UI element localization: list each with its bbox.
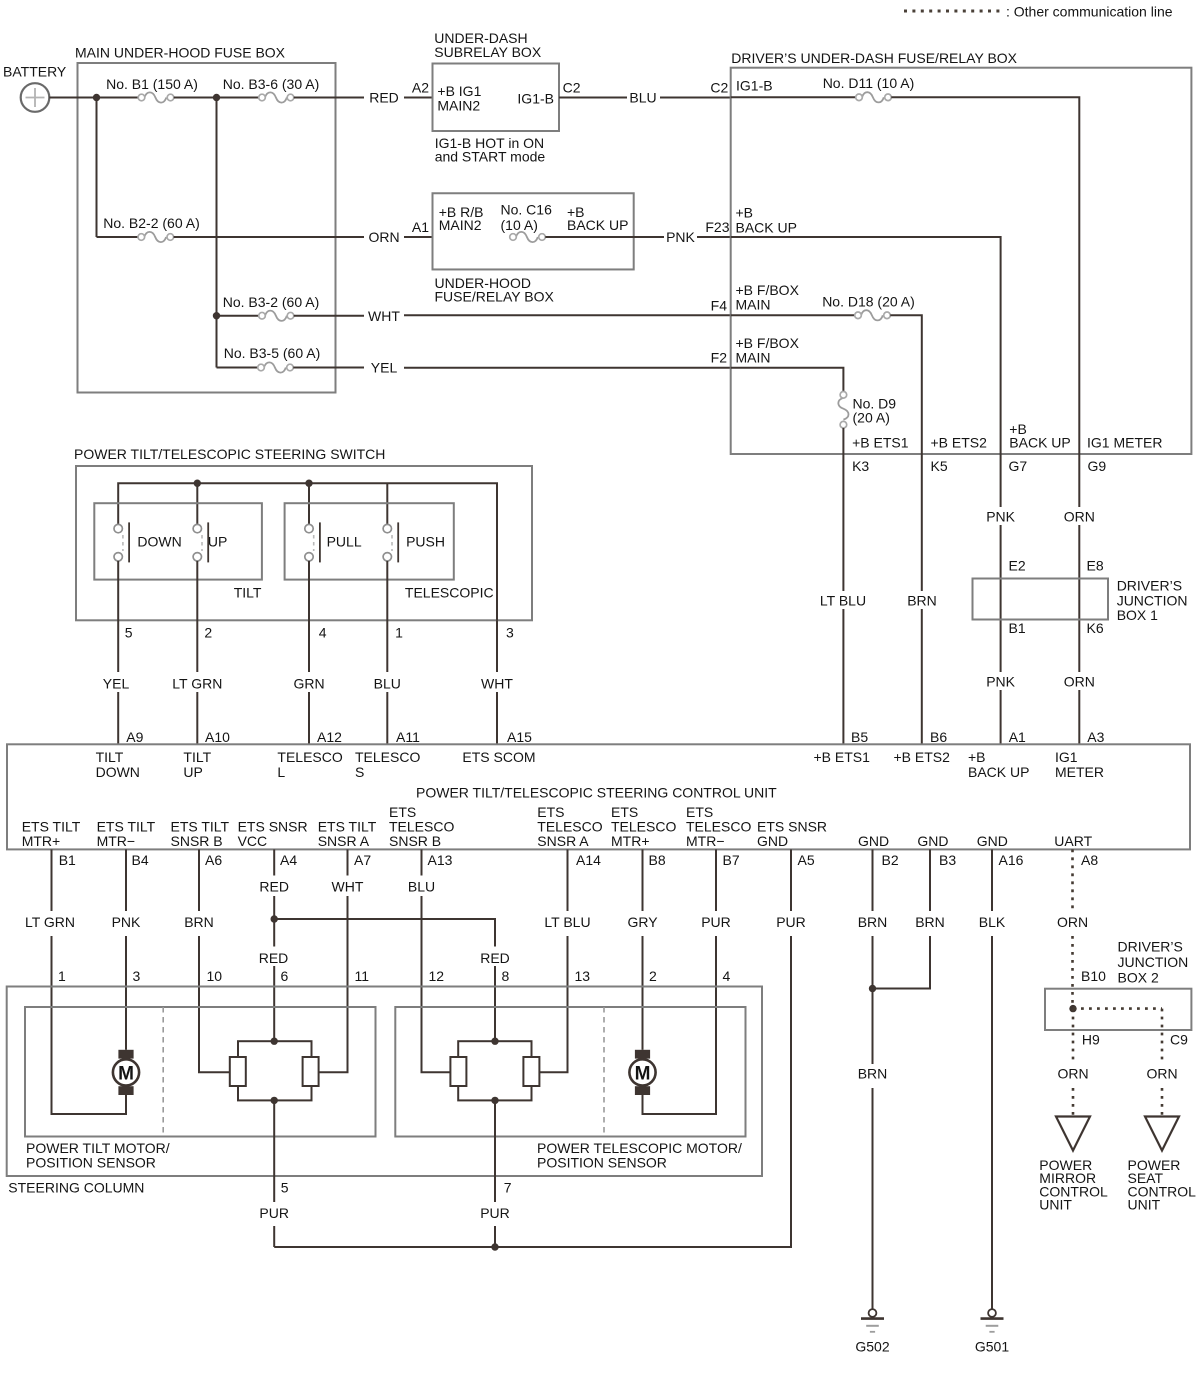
svg-text:DRIVER’S: DRIVER’S [1117, 578, 1182, 594]
dotted wire junction box 2 branch [1073, 1007, 1162, 1010]
svg-text:TELESCO: TELESCO [355, 749, 420, 765]
wire switch pin 1 to A11 [386, 561, 388, 672]
svg-text:GRN: GRN [293, 676, 324, 692]
svg-text:UART: UART [1054, 833, 1092, 849]
svg-text:IG1 METER: IG1 METER [1087, 435, 1162, 451]
svg-text:2: 2 [649, 968, 657, 984]
svg-text:A15: A15 [507, 729, 532, 745]
wire fuse D18 to K5 column [890, 315, 922, 591]
contact UP [193, 522, 208, 562]
wire fuse D9 to K3 [842, 428, 844, 591]
node telescopic sensor top [491, 1038, 498, 1045]
svg-text:PULL: PULL [327, 534, 362, 550]
svg-text:BOX 2: BOX 2 [1118, 970, 1159, 986]
wire battery to fuse B1 [49, 97, 138, 99]
wire fuse B2-2 to ORN label [174, 236, 364, 238]
svg-text:C2: C2 [710, 80, 728, 96]
svg-text:MTR+: MTR+ [611, 833, 650, 849]
fuse No. C16 [516, 232, 538, 242]
under-hood fuse/relay box [433, 193, 634, 269]
svg-text:B6: B6 [930, 729, 947, 745]
wire switch pin 5 to A9 [117, 561, 119, 672]
tilt motor M [113, 1050, 139, 1095]
wire B3 joins B2 [929, 849, 931, 911]
svg-text:G502: G502 [855, 1339, 889, 1355]
svg-text:BRN: BRN [858, 914, 888, 930]
node telescopic sensor bottom [491, 1097, 498, 1104]
svg-text:MTR+: MTR+ [22, 833, 61, 849]
svg-text:YEL: YEL [371, 360, 398, 376]
wire B1 to motor pin 1 [51, 849, 53, 911]
contact PULL [305, 522, 320, 562]
svg-text:: Other communication line: : Other communication line [1006, 4, 1173, 20]
svg-text:GRY: GRY [627, 914, 658, 930]
svg-text:BACK UP: BACK UP [567, 217, 628, 233]
node tilt sensor top [271, 1038, 278, 1045]
telescopic sensor right element [523, 1057, 539, 1086]
wire RED label to subrelay box [404, 97, 433, 99]
wire tilt sensor wiper down pin 5 [273, 1100, 275, 1202]
svg-text:8: 8 [502, 968, 510, 984]
under-dash subrelay box [433, 64, 560, 132]
ground G502 [855, 1295, 889, 1355]
svg-text:No. C16: No. C16 [501, 202, 553, 218]
svg-text:SNSR B: SNSR B [171, 833, 223, 849]
legend: other communication line sample [904, 10, 1001, 13]
svg-text:PNK: PNK [986, 674, 1015, 690]
svg-text:VCC: VCC [238, 833, 268, 849]
svg-text:GND: GND [858, 833, 889, 849]
svg-text:6: 6 [281, 968, 289, 984]
svg-text:METER: METER [1055, 764, 1104, 780]
wire C16 to PNK label [545, 236, 664, 238]
svg-text:+B ETS1: +B ETS1 [852, 435, 909, 451]
battery B+ terminal [21, 83, 50, 112]
svg-text:BLK: BLK [979, 914, 1006, 930]
svg-text:MAIN2: MAIN2 [437, 97, 480, 113]
svg-text:LT GRN: LT GRN [172, 676, 222, 692]
svg-text:BACK UP: BACK UP [736, 220, 797, 236]
svg-text:RED: RED [480, 950, 510, 966]
svg-text:K3: K3 [852, 458, 869, 474]
svg-text:A7: A7 [354, 852, 371, 868]
wire B3-2 row start [217, 315, 259, 317]
svg-text:UNIT: UNIT [1039, 1197, 1072, 1213]
svg-text:B1: B1 [59, 852, 76, 868]
svg-text:MAIN2: MAIN2 [439, 217, 482, 233]
fuse No. B3-5 (60 A) [264, 362, 286, 372]
wire switch pin 2 to A10 [196, 561, 198, 672]
svg-text:B5: B5 [851, 729, 868, 745]
wire branch down to B2-2 row [96, 98, 98, 238]
svg-text:LT GRN: LT GRN [25, 914, 75, 930]
RED wire branch to pin 8 [274, 919, 495, 947]
wire A13 to sensor pin 12 [421, 849, 423, 875]
svg-text:PNK: PNK [112, 914, 141, 930]
wire C2 to fuse D11 [731, 96, 856, 98]
wire branch down to B3-2 and B3-5 rows [216, 98, 218, 368]
svg-text:7: 7 [504, 1180, 512, 1196]
wire PNK label to drivers box F23 [697, 236, 731, 238]
svg-text:IG1: IG1 [1055, 749, 1078, 765]
svg-text:K6: K6 [1087, 620, 1104, 636]
drivers junction box 1 [973, 579, 1109, 620]
svg-text:No. D11 (10 A): No. D11 (10 A) [823, 75, 915, 91]
svg-text:ORN: ORN [1064, 509, 1095, 525]
wire PULL top contact to bus [308, 483, 310, 524]
svg-text:ORN: ORN [1057, 1066, 1088, 1082]
wire B3-5 row start [217, 367, 258, 369]
svg-text:IG1-B: IG1-B [736, 78, 773, 94]
wire YEL label to drivers box F2 [404, 367, 731, 369]
svg-text:TILT: TILT [183, 749, 211, 765]
tilt motor separator dashed [162, 1007, 164, 1137]
svg-text:MAIN: MAIN [736, 296, 771, 312]
svg-text:UNIT: UNIT [1128, 1197, 1161, 1213]
svg-text:RED: RED [259, 879, 289, 895]
svg-text:B10: B10 [1081, 968, 1106, 984]
svg-text:12: 12 [429, 968, 445, 984]
svg-text:A9: A9 [126, 729, 143, 745]
wire A4 to sensor pin 6 [273, 849, 275, 875]
svg-text:B2: B2 [882, 852, 899, 868]
svg-text:SNSR B: SNSR B [389, 833, 441, 849]
wire F23 to G7 column [731, 237, 1001, 507]
node tilt sensor bottom [271, 1097, 278, 1104]
wire K5 to B6 lower [921, 609, 923, 744]
svg-text:1: 1 [395, 625, 403, 641]
telescopic switch box [285, 503, 454, 579]
svg-text:STEERING COLUMN: STEERING COLUMN [8, 1180, 144, 1196]
svg-text:ORN: ORN [1057, 914, 1088, 930]
wire switch pin 4 to A12 [308, 561, 310, 672]
svg-text:M: M [635, 1064, 651, 1085]
svg-text:BRN: BRN [915, 914, 945, 930]
wire A14 to sensor pin 13 [567, 849, 569, 911]
node RED split [271, 915, 278, 922]
wire G7 to A1 via junction box [1000, 525, 1002, 672]
svg-text:PUSH: PUSH [406, 534, 445, 550]
svg-text:A1: A1 [412, 219, 429, 235]
dotted wire H9 to power mirror [1072, 1009, 1075, 1064]
svg-text:A10: A10 [205, 729, 230, 745]
svg-text:PNK: PNK [666, 229, 695, 245]
svg-text:DOWN: DOWN [137, 534, 181, 550]
svg-text:BRN: BRN [184, 914, 214, 930]
svg-text:MTR−: MTR− [97, 833, 136, 849]
wire PUSH top contact to bus [386, 483, 388, 524]
power tilt motor/position sensor box [25, 1007, 376, 1137]
wire A7 to sensor pin 11 [347, 849, 349, 875]
svg-text:+B ETS2: +B ETS2 [931, 435, 988, 451]
svg-text:GND: GND [757, 833, 788, 849]
svg-text:No. B3-5 (60 A): No. B3-5 (60 A) [224, 345, 321, 361]
svg-text:13: 13 [575, 968, 591, 984]
svg-text:GND: GND [977, 833, 1008, 849]
svg-text:C2: C2 [563, 80, 581, 96]
drivers junction box 2 [1045, 989, 1191, 1030]
wire BLU label to drivers box [660, 97, 731, 99]
svg-text:ORN: ORN [1064, 674, 1095, 690]
svg-text:ORN: ORN [1146, 1066, 1177, 1082]
svg-text:UP: UP [183, 764, 202, 780]
svg-text:11: 11 [355, 968, 370, 984]
fuse No. B2-2 (60 A) [144, 232, 166, 242]
ground G501 [975, 1295, 1009, 1355]
wire UP top contact to bus [196, 483, 198, 524]
drivers under-dash fuse/relay box [731, 68, 1192, 454]
svg-text:1: 1 [58, 968, 66, 984]
svg-text:(10 A): (10 A) [501, 217, 538, 233]
svg-text:SNSR A: SNSR A [318, 833, 370, 849]
svg-text:5: 5 [281, 1180, 289, 1196]
svg-text:POWER TILT/TELESCOPIC STEERING: POWER TILT/TELESCOPIC STEERING SWITCH [74, 446, 385, 462]
svg-text:POSITION SENSOR: POSITION SENSOR [537, 1155, 667, 1171]
svg-text:POSITION SENSOR: POSITION SENSOR [26, 1155, 156, 1171]
switch bus wire [118, 483, 497, 620]
svg-text:H9: H9 [1082, 1032, 1100, 1048]
svg-text:K5: K5 [931, 458, 948, 474]
svg-text:3: 3 [506, 625, 514, 641]
svg-text:G7: G7 [1009, 458, 1028, 474]
wire F2 to fuse D9 [731, 368, 844, 392]
svg-text:BACK UP: BACK UP [1009, 435, 1070, 451]
telescopic sensor left element [450, 1057, 466, 1086]
svg-text:ORN: ORN [368, 229, 399, 245]
svg-text:GND: GND [917, 833, 948, 849]
svg-text:A2: A2 [412, 80, 429, 96]
svg-text:SUBRELAY BOX: SUBRELAY BOX [434, 44, 542, 60]
wire A8 dotted to junction box 2 [1071, 849, 1074, 911]
svg-text:+B ETS1: +B ETS1 [814, 749, 871, 765]
node bus PULL branch [305, 480, 312, 487]
svg-text:PNK: PNK [986, 509, 1015, 525]
svg-text:RED: RED [259, 950, 289, 966]
svg-text:FUSE/RELAY BOX: FUSE/RELAY BOX [435, 289, 555, 305]
svg-text:4: 4 [319, 625, 327, 641]
svg-text:IG1-B: IG1-B [517, 91, 554, 107]
svg-text:and START mode: and START mode [435, 148, 546, 164]
svg-text:No. B3-6 (30 A): No. B3-6 (30 A) [223, 76, 320, 92]
telescopic motor separator dashed [603, 1007, 605, 1137]
wire WHT label to drivers box F4 [404, 314, 731, 316]
wire A5 to sensor ground bus [790, 849, 792, 911]
connector arrow to power seat [1145, 1117, 1179, 1151]
svg-text:PUR: PUR [701, 914, 731, 930]
svg-text:BLU: BLU [408, 879, 435, 895]
svg-text:BLU: BLU [374, 676, 401, 692]
svg-text:TELESCO: TELESCO [277, 749, 342, 765]
wire K3 to B5 lower [842, 609, 844, 744]
svg-text:5: 5 [125, 625, 133, 641]
svg-text:No. B3-2 (60 A): No. B3-2 (60 A) [223, 294, 320, 310]
contact DOWN [114, 522, 129, 562]
svg-text:No. B2-2 (60 A): No. B2-2 (60 A) [103, 215, 200, 231]
svg-text:B4: B4 [132, 852, 149, 868]
wire B2 to ground G502 [872, 849, 874, 911]
wire B8 to telescopic motor pin 2 [642, 849, 644, 911]
fuse No. B3-2 (60 A) [265, 311, 287, 321]
node B3-2 branch [213, 312, 220, 319]
svg-text:A6: A6 [205, 852, 222, 868]
svg-text:POWER TILT/TELESCOPIC STEERING: POWER TILT/TELESCOPIC STEERING CONTROL U… [416, 785, 777, 801]
tilt switch box [94, 503, 262, 579]
tilt position sensor body [238, 1041, 312, 1100]
svg-text:DOWN: DOWN [96, 764, 140, 780]
svg-text:RED: RED [369, 90, 399, 106]
svg-text:G9: G9 [1088, 458, 1107, 474]
svg-text:WHT: WHT [481, 676, 513, 692]
svg-text:E2: E2 [1009, 558, 1026, 574]
svg-text:YEL: YEL [103, 676, 130, 692]
svg-text:F4: F4 [711, 297, 728, 313]
wire fuse B1 to fuse B3-6 [174, 97, 259, 99]
fuse No. D11 [862, 92, 884, 102]
fuse No. B3-6 (30 A) [265, 92, 287, 102]
wire G9 to A3 via junction box [1078, 525, 1080, 672]
wire fuse D11 to G9 column [891, 97, 1079, 507]
node PUR ground bus [491, 1243, 498, 1250]
tilt sensor right element [303, 1057, 319, 1086]
svg-text:L: L [277, 764, 285, 780]
svg-text:+B: +B [736, 205, 754, 221]
wire B2-2 row start [97, 236, 139, 238]
wire IG1-B to BLU label [559, 97, 627, 99]
svg-text:E8: E8 [1087, 558, 1104, 574]
svg-text:(20 A): (20 A) [853, 410, 890, 426]
svg-text:DRIVER’S: DRIVER’S [1118, 939, 1183, 955]
svg-text:No. D18 (20 A): No. D18 (20 A) [822, 294, 915, 310]
svg-text:LT BLU: LT BLU [544, 914, 590, 930]
svg-text:G501: G501 [975, 1339, 1009, 1355]
node bus UP branch [194, 480, 201, 487]
tilt sensor left element [230, 1057, 246, 1086]
wire A16 to ground G501 [991, 849, 993, 911]
wire F4 to fuse D18 [731, 314, 855, 316]
svg-text:B7: B7 [723, 852, 740, 868]
svg-text:No. B1 (150 A): No. B1 (150 A) [106, 76, 198, 92]
steering column box [7, 987, 762, 1177]
svg-text:JUNCTION: JUNCTION [1118, 954, 1189, 970]
svg-text:S: S [355, 764, 364, 780]
svg-text:B3: B3 [939, 852, 956, 868]
svg-text:MTR−: MTR− [686, 833, 725, 849]
svg-text:B8: B8 [649, 852, 666, 868]
svg-text:+B ETS2: +B ETS2 [894, 749, 951, 765]
svg-text:PUR: PUR [259, 1205, 289, 1221]
svg-text:WHT: WHT [332, 879, 364, 895]
svg-text:A13: A13 [428, 852, 453, 868]
power telescopic motor/position sensor box [395, 1007, 745, 1137]
svg-text:BOX 1: BOX 1 [1117, 607, 1158, 623]
svg-text:MAIN: MAIN [736, 349, 771, 365]
wire fuse B3-6 to RED label [294, 97, 364, 99]
svg-text:LT BLU: LT BLU [820, 593, 866, 609]
svg-text:+B: +B [968, 749, 986, 765]
contact PUSH [383, 522, 398, 562]
svg-text:B1: B1 [1009, 620, 1026, 636]
svg-text:UP: UP [208, 534, 227, 550]
wire tilt motor bottom loop [125, 1095, 127, 1114]
main under-hood fuse box [78, 63, 336, 393]
svg-text:ETS SCOM: ETS SCOM [462, 749, 535, 765]
power tilt/telescopic steering control unit box [7, 744, 1190, 849]
svg-text:3: 3 [133, 968, 141, 984]
node main branch [213, 94, 220, 101]
telescopic position sensor body [458, 1041, 531, 1100]
node battery branch [93, 94, 100, 101]
svg-text:4: 4 [723, 968, 731, 984]
svg-text:BRN: BRN [907, 593, 937, 609]
svg-text:PUR: PUR [776, 914, 806, 930]
wire fuse B3-5 to YEL label [293, 367, 364, 369]
svg-text:A8: A8 [1081, 852, 1098, 868]
wire B4 to motor pin 3 [125, 849, 127, 911]
fuse No. B1 (150 A) [145, 92, 167, 102]
svg-text:WHT: WHT [368, 308, 400, 324]
svg-text:TELESCOPIC: TELESCOPIC [405, 585, 494, 601]
svg-text:A12: A12 [317, 729, 342, 745]
svg-text:M: M [118, 1064, 134, 1085]
wire fuse B3-2 to WHT label [294, 315, 364, 317]
svg-text:A3: A3 [1087, 729, 1104, 745]
svg-text:A1: A1 [1009, 729, 1026, 745]
wire telescopic sensor wiper down pin 7 [494, 1100, 496, 1202]
wire B7 to telescopic motor pin 4 [715, 849, 717, 911]
svg-text:F23: F23 [705, 219, 729, 235]
fuse No. D9 (20 A) [838, 398, 848, 420]
svg-text:A5: A5 [798, 852, 815, 868]
svg-text:BACK UP: BACK UP [968, 764, 1029, 780]
node B3 join [869, 985, 876, 992]
wire A6 to sensor pin 10 [198, 849, 200, 911]
node junction box 2 [1069, 1005, 1076, 1012]
svg-text:BATTERY: BATTERY [3, 64, 67, 80]
svg-text:BRN: BRN [858, 1066, 888, 1082]
svg-text:A11: A11 [396, 729, 420, 745]
power tilt/telescopic steering switch box [76, 466, 532, 620]
connector arrow to power mirror [1056, 1117, 1090, 1151]
wire ORN label to under-hood relay box [404, 236, 433, 238]
svg-text:DRIVER’S UNDER-DASH FUSE/RELAY: DRIVER’S UNDER-DASH FUSE/RELAY BOX [731, 50, 1017, 66]
svg-text:SNSR A: SNSR A [537, 833, 589, 849]
wire switch pin 3 to A15 [496, 620, 498, 672]
svg-text:BLU: BLU [629, 90, 656, 106]
svg-text:MAIN UNDER-HOOD FUSE BOX: MAIN UNDER-HOOD FUSE BOX [75, 45, 286, 61]
svg-text:A14: A14 [576, 852, 601, 868]
svg-text:TILT: TILT [96, 749, 124, 765]
svg-text:C9: C9 [1170, 1032, 1188, 1048]
svg-text:PUR: PUR [480, 1205, 510, 1221]
svg-text:A16: A16 [999, 852, 1024, 868]
svg-text:10: 10 [207, 968, 223, 984]
svg-text:TILT: TILT [234, 585, 262, 601]
svg-text:F2: F2 [711, 350, 728, 366]
svg-text:2: 2 [204, 625, 212, 641]
svg-text:A4: A4 [280, 852, 297, 868]
telescopic motor M [629, 1050, 655, 1095]
dotted wire C9 to power seat [1161, 1009, 1164, 1064]
fuse No. D18 [861, 310, 883, 320]
